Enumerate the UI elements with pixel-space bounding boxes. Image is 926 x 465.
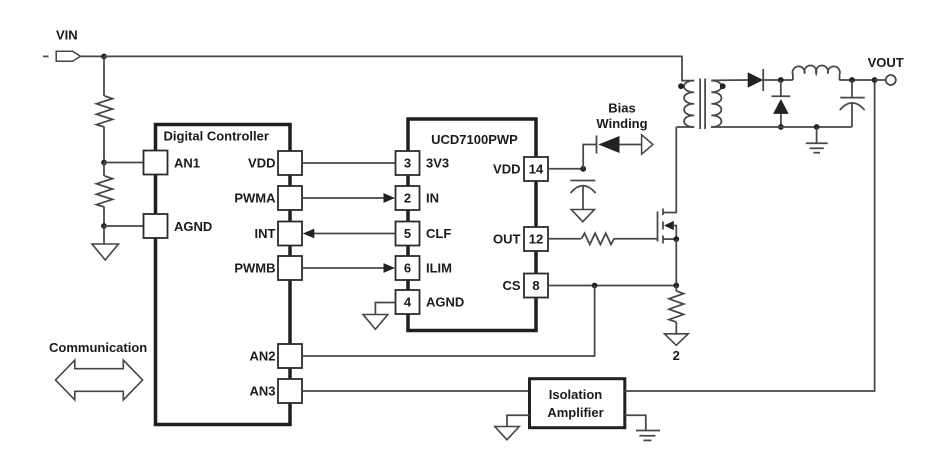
transistor Q1 source lead	[663, 238, 676, 240]
svg-text:2: 2	[404, 191, 411, 206]
transistor Q1 channel segments	[662, 209, 664, 216]
transistor Q1 drain lead	[663, 127, 676, 213]
arrowhead into INT	[303, 229, 315, 239]
wire cap bottom lead to rail	[851, 103, 853, 127]
wire primary bottom to MOSFET drain	[676, 126, 694, 128]
digital controller U2 box	[156, 125, 291, 425]
ground earth isolation right	[636, 430, 660, 432]
node junction output ground	[814, 124, 820, 130]
transistor Q1 body arrow	[664, 221, 674, 230]
svg-text:IN: IN	[426, 191, 439, 206]
wire tap to AGND pin	[104, 225, 144, 227]
pin 3 box	[396, 151, 420, 175]
diode D1 cathode bar	[762, 69, 764, 91]
node junction cap top	[849, 77, 855, 83]
capacitor C1 bias curved plate	[571, 186, 596, 193]
svg-text:Bias: Bias	[608, 101, 635, 116]
wire PWMB to pin 6	[302, 267, 384, 269]
wire diode to bias arrow	[620, 144, 642, 146]
svg-text:Isolation: Isolation	[549, 387, 603, 402]
pin VDD box (controller)	[278, 151, 302, 175]
svg-text:CLF: CLF	[426, 226, 451, 241]
wire AN2 to CS tap	[302, 286, 595, 357]
svg-text:Digital Controller: Digital Controller	[164, 129, 269, 144]
transformer T1 secondary winding	[711, 81, 721, 127]
svg-text:6: 6	[404, 261, 411, 276]
diode D1 rectifier triangle	[748, 72, 764, 88]
resistor R1 (upper divider)	[97, 96, 113, 127]
wire sense node to resistor	[675, 286, 677, 292]
pin AGND box (controller)	[144, 214, 168, 238]
svg-text:AN3: AN3	[249, 384, 275, 399]
ground triangle bias cap	[571, 210, 594, 222]
wire isolation amp right ground stub	[625, 415, 646, 430]
node junction VOUT feedback	[872, 77, 878, 83]
resistor R2 (lower divider)	[97, 176, 113, 207]
node junction freewheel bottom	[778, 124, 784, 130]
arrowhead into pin 6	[384, 263, 396, 273]
op-amp U1 UCD7100PWP box	[408, 119, 536, 331]
wire R2 to AGND junction	[103, 207, 105, 226]
svg-text:CS: CS	[502, 278, 520, 293]
wire tap to AN1 pin	[104, 162, 144, 164]
pin AN2 box	[278, 344, 302, 368]
resistor R4 current sense	[669, 291, 684, 322]
pin PWMA box	[278, 186, 302, 210]
pin 12 box	[524, 227, 548, 251]
svg-text:AGND: AGND	[174, 219, 212, 234]
pin INT box	[278, 222, 302, 246]
svg-text:5: 5	[404, 226, 411, 241]
svg-text:VIN: VIN	[56, 28, 78, 43]
wire ground stub output	[816, 127, 818, 143]
svg-text:VDD: VDD	[493, 162, 520, 177]
diode D2 bias triangle	[598, 136, 619, 153]
svg-text:2: 2	[673, 348, 680, 363]
svg-text:3V3: 3V3	[426, 156, 449, 171]
ground analog ground triangle (divider)	[92, 244, 119, 260]
wire cap to ground	[582, 186, 584, 210]
wire D1 to freewheel node	[763, 79, 793, 81]
wire pin 4 AGND stub	[375, 303, 395, 315]
pin 4 box	[396, 290, 420, 314]
svg-text:Amplifier: Amplifier	[547, 405, 603, 420]
svg-text:AGND: AGND	[426, 295, 464, 310]
wire PWMA to pin 2	[302, 197, 384, 199]
arrowhead into pin 2	[384, 193, 396, 203]
ground arrow net 2	[665, 334, 689, 346]
wire stub left of VIN connector	[43, 55, 49, 57]
wire to VOUT terminal	[875, 79, 886, 81]
pin PWMB box	[278, 256, 302, 280]
wire AN3 to isolation amplifier	[302, 390, 530, 392]
transistor Q1 body lead	[673, 226, 677, 240]
wire top rail to transformer primary	[104, 56, 694, 80]
svg-text:14: 14	[529, 162, 544, 177]
wire CS pin 8 to sense node	[548, 285, 676, 287]
svg-text:PWMB: PWMB	[234, 261, 275, 276]
transformer T1 core	[699, 79, 701, 130]
svg-text:OUT: OUT	[493, 232, 521, 247]
ground triangle isolation left	[495, 427, 519, 440]
svg-text:Winding: Winding	[596, 116, 647, 131]
ground triangle pin 4	[363, 315, 388, 330]
svg-text:INT: INT	[255, 226, 276, 241]
svg-text:UCD7100PWP: UCD7100PWP	[431, 132, 518, 147]
svg-text:VOUT: VOUT	[868, 55, 904, 70]
capacitor C2 output flat plate	[840, 97, 865, 99]
wire pin 5 to INT	[314, 233, 396, 235]
svg-text:12: 12	[529, 232, 543, 247]
isolation amplifier U3 box	[530, 379, 625, 428]
svg-text:8: 8	[532, 278, 539, 293]
node junction AN1 tap	[101, 160, 107, 166]
pin AN3 box	[278, 379, 302, 403]
node junction AGND tap	[101, 223, 107, 229]
open arrow to bias winding	[642, 135, 653, 154]
wire cap top lead	[851, 80, 853, 98]
wire isolation amp left ground stub	[507, 415, 530, 426]
node junction VIN rail	[101, 54, 107, 60]
transistor Q1 gate plate	[657, 212, 659, 242]
pin 6 box	[396, 256, 420, 280]
svg-text:Communication: Communication	[49, 340, 147, 355]
pin 2 box	[396, 186, 420, 210]
diode D3 freewheel cathode bar	[772, 95, 791, 97]
wire feedback VOUT to isolation amp	[625, 80, 875, 391]
wire R1 to AN1 junction	[103, 127, 105, 163]
capacitor C1 bias top plate	[570, 180, 595, 182]
svg-text:4: 4	[404, 295, 412, 310]
transformer T1 primary phase dot	[678, 83, 684, 89]
wire resistor to arrow ground	[675, 322, 677, 334]
svg-text:AN1: AN1	[174, 156, 200, 171]
communication double arrow	[56, 360, 143, 400]
wire bias node up to diode	[583, 145, 596, 169]
wire junction down to ground	[103, 226, 105, 244]
transformer T1 secondary phase dot	[720, 83, 726, 89]
pin 14 box	[524, 157, 548, 181]
wire VDD to pin 3	[302, 162, 396, 164]
diode D2 bias (cathode bar)	[596, 136, 598, 154]
node junction source	[673, 236, 679, 242]
connector VIN terminal tag	[56, 51, 80, 61]
node junction AN2 tap on CS	[592, 283, 598, 289]
wire junction down to R2	[103, 163, 105, 177]
svg-text:3: 3	[404, 156, 411, 171]
node junction freewheel top	[778, 77, 784, 83]
node junction bias	[580, 166, 586, 172]
wire freewheel node down	[780, 80, 782, 96]
svg-text:ILIM: ILIM	[426, 261, 452, 276]
pin 5 box	[396, 222, 420, 246]
pin 8 box	[524, 274, 548, 298]
diode D3 freewheel triangle	[773, 99, 789, 114]
wire freewheel anode to bottom rail	[780, 114, 782, 127]
capacitor C2 output curved plate	[840, 103, 865, 110]
wire secondary top to diode D1	[711, 79, 747, 81]
wire pin 14 to bias node	[548, 168, 583, 170]
svg-text:PWMA: PWMA	[234, 191, 276, 206]
wire secondary bottom rail	[711, 126, 852, 128]
ground earth output	[806, 142, 828, 144]
pin AN1 box	[144, 151, 168, 175]
wire VIN tag to top rail junction	[81, 55, 105, 57]
wire source down to CS	[675, 239, 677, 285]
node junction sense	[673, 283, 679, 289]
wire pin 12 to gate resistor	[548, 238, 581, 240]
wire gate resistor to MOSFET gate	[614, 238, 658, 240]
wire junction down to R1	[103, 56, 105, 96]
VOUT terminal circle	[886, 75, 896, 85]
wire inductor to output node	[839, 79, 874, 81]
svg-text:VDD: VDD	[248, 156, 275, 171]
resistor R3 gate	[582, 233, 614, 244]
transformer T1 primary winding	[684, 81, 694, 127]
inductor L1	[792, 66, 839, 80]
svg-text:AN2: AN2	[249, 349, 275, 364]
